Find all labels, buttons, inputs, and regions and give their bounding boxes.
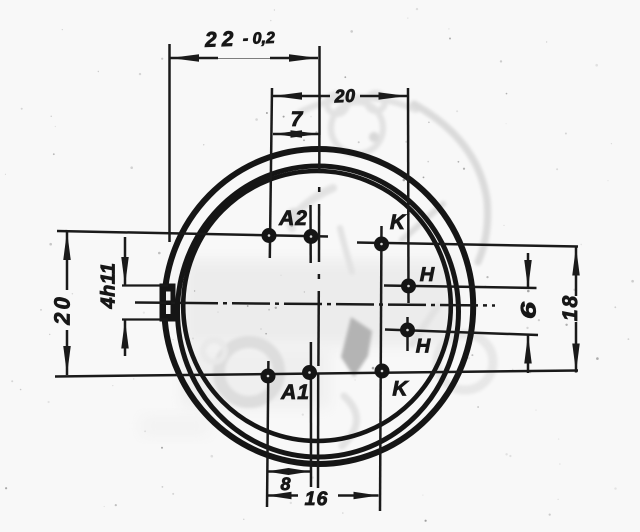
svg-text:6: 6 <box>518 302 541 319</box>
svg-text:K: K <box>392 378 409 401</box>
svg-text:A1: A1 <box>280 381 310 404</box>
svg-text:18: 18 <box>559 294 582 321</box>
svg-text:7: 7 <box>291 108 304 131</box>
svg-text:H: H <box>420 264 435 286</box>
svg-text:A2: A2 <box>278 207 308 230</box>
svg-text:16: 16 <box>305 488 329 510</box>
svg-text:20: 20 <box>333 86 356 107</box>
svg-text:4h11: 4h11 <box>98 262 120 309</box>
svg-text:H: H <box>416 336 431 358</box>
svg-text:8: 8 <box>280 474 290 494</box>
svg-text:20: 20 <box>50 294 75 325</box>
svg-text:K: K <box>390 211 407 234</box>
